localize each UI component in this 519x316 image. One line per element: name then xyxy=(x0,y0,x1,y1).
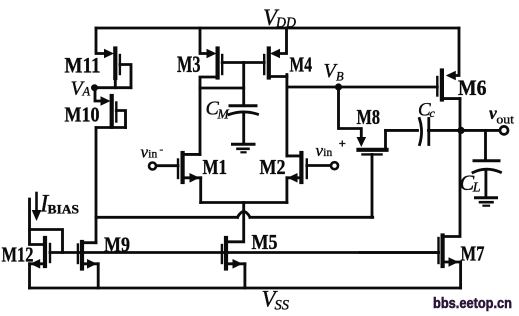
current source IBIAS arrow xyxy=(32,193,42,221)
node VA dot xyxy=(91,84,98,91)
svg-text:M11: M11 xyxy=(65,53,101,78)
label vin- xyxy=(141,143,164,162)
svg-text:c: c xyxy=(430,106,436,120)
wire tail down to M5 xyxy=(226,203,244,242)
label VA xyxy=(71,78,91,100)
transistor M6 xyxy=(437,28,460,100)
wire VDD top rail xyxy=(96,27,459,30)
wire VSS bottom rail xyxy=(30,287,461,290)
label vin+ xyxy=(316,137,346,160)
svg-text:M3: M3 xyxy=(177,52,201,77)
wire M8 drain to Cc xyxy=(386,129,418,132)
wire VB line from first stage to M6 gate xyxy=(287,86,437,89)
wire M6 drain to output node xyxy=(459,99,462,131)
ground below CM xyxy=(233,144,255,152)
wire M12 diode connection xyxy=(30,230,63,253)
transistor M3 xyxy=(200,28,222,78)
svg-text:out: out xyxy=(496,112,514,127)
wire M9 drain link xyxy=(82,241,96,245)
wire node VA horizontal xyxy=(95,86,132,89)
svg-text:M5: M5 xyxy=(252,230,278,254)
svg-text:-: - xyxy=(160,144,164,156)
label Cc xyxy=(418,100,436,121)
transistor M1 xyxy=(155,153,200,203)
svg-text:M: M xyxy=(217,107,230,122)
transistor M9 xyxy=(78,242,98,288)
svg-text:M12: M12 xyxy=(2,243,34,267)
svg-text:M10: M10 xyxy=(65,103,100,127)
svg-text:v: v xyxy=(316,141,324,160)
wire Cc to vout xyxy=(428,129,499,132)
terminal vout xyxy=(500,126,508,134)
svg-text:in: in xyxy=(323,147,332,159)
label IBIAS xyxy=(39,191,79,218)
svg-text:bbs.eetop.cn: bbs.eetop.cn xyxy=(433,295,512,312)
wire M4 drain / M2 drain riser xyxy=(285,75,288,156)
svg-text:+: + xyxy=(339,137,346,151)
svg-text:M6: M6 xyxy=(458,75,487,100)
terminal vin+ xyxy=(331,162,338,169)
svg-text:M1: M1 xyxy=(203,155,228,179)
wire M3/M4 gate line xyxy=(222,61,264,64)
wire M3 drain to M1 drain xyxy=(200,77,218,154)
svg-text:B: B xyxy=(336,70,344,84)
wire bias line to M8 gate (with hop over tail) xyxy=(96,212,373,218)
svg-text:DD: DD xyxy=(275,15,296,31)
transistor M2 xyxy=(287,153,331,203)
transistor M5 xyxy=(222,238,245,288)
label VDD xyxy=(263,5,296,31)
label VB xyxy=(324,60,345,84)
svg-text:M9: M9 xyxy=(104,233,130,257)
wire IBIAS stub into M12 drain xyxy=(30,199,46,245)
wire differential source line xyxy=(201,201,287,204)
label VSS xyxy=(262,287,290,314)
wire M7 drain riser xyxy=(443,130,460,236)
label vout xyxy=(489,103,514,127)
svg-text:M4: M4 xyxy=(290,53,313,77)
svg-text:A: A xyxy=(82,85,91,99)
capacitor CL xyxy=(473,130,501,197)
label CL xyxy=(460,170,481,196)
wire M3 drain branch to CM xyxy=(200,87,244,90)
transistor M4 xyxy=(264,28,287,78)
ground below CL xyxy=(476,198,497,206)
svg-text:BIAS: BIAS xyxy=(48,203,80,217)
transistor M10 xyxy=(95,88,126,128)
transistor M11 xyxy=(96,28,131,88)
transistor M8 xyxy=(339,87,387,217)
svg-text:M8: M8 xyxy=(357,105,381,129)
svg-text:SS: SS xyxy=(275,298,290,314)
terminal vin- xyxy=(149,163,156,170)
transistor M7 xyxy=(360,236,461,289)
transistor M12 xyxy=(30,238,51,288)
node VB dot xyxy=(335,83,342,90)
label CM xyxy=(206,98,230,122)
capacitor Cc xyxy=(419,119,428,145)
svg-text:v: v xyxy=(141,143,149,162)
wire M10 drain down to bias node xyxy=(95,128,98,243)
wire gate bias line M12-M9-M5-M7 xyxy=(50,251,439,254)
svg-text:in: in xyxy=(148,149,157,161)
svg-text:M7: M7 xyxy=(461,242,485,266)
node vout dot xyxy=(457,127,464,134)
capacitor CM xyxy=(229,63,258,144)
svg-text:L: L xyxy=(472,181,481,196)
svg-text:M2: M2 xyxy=(260,155,286,179)
